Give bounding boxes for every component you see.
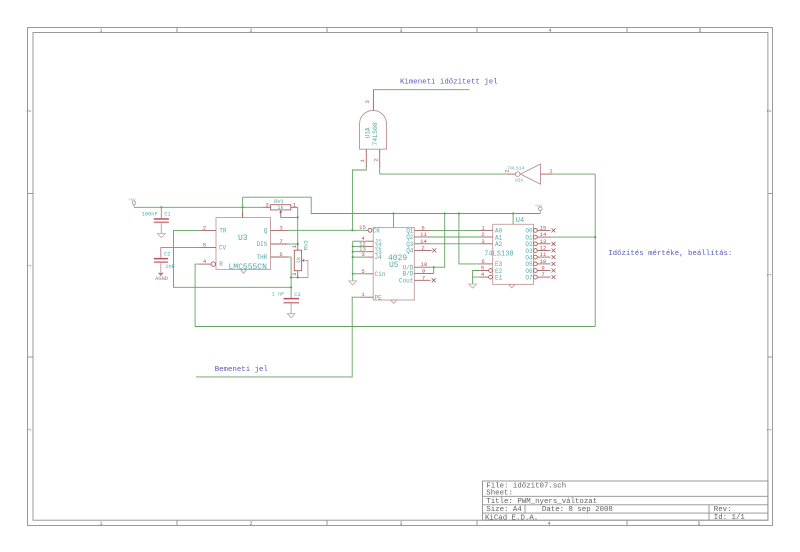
svg-text:C2: C2 [164, 251, 170, 257]
timer U3 LMC555CN body [216, 218, 271, 274]
wire CV to C2 [161, 246, 199, 248]
junction Q wire/AND pin1 [351, 229, 353, 231]
junction rail/UD vert [444, 212, 446, 214]
svg-text:1: 1 [99, 521, 102, 527]
counter U5 pins [360, 228, 434, 297]
junction J4 row [352, 256, 354, 258]
wire U4 pin16 drop [512, 214, 514, 225]
wire O1 to rail [551, 236, 596, 238]
svg-text:C1: C1 [164, 212, 170, 218]
counter U5 4029 body [373, 228, 414, 304]
wire J4 stub [353, 256, 367, 258]
counter U5 no-connect X on Q4 [432, 248, 436, 252]
capacitor C3 [284, 298, 300, 314]
svg-text:74LS14: 74LS14 [507, 166, 524, 172]
decoder U4 no-connect X marks [552, 228, 556, 279]
ground below U4 E1/E2 bracket [469, 284, 477, 288]
junction DIS/RV2 top [297, 243, 299, 245]
potentiometer RV2 wiper arrow [302, 259, 305, 262]
svg-text:1: 1 [99, 28, 102, 34]
svg-text:3: 3 [279, 224, 282, 231]
junction O1/right rail [594, 236, 596, 238]
potentiometer RV2 [294, 244, 301, 278]
svg-text:3: 3 [399, 521, 402, 527]
junction J2 row [352, 245, 354, 247]
decoder U4 input pins [480, 230, 493, 279]
potentiometer RV1 wiper arrow [279, 210, 282, 213]
wire VCC rail left [134, 206, 263, 208]
svg-text:CK: CK [373, 227, 381, 234]
svg-text:2: 2 [27, 109, 33, 112]
inverter U2A pins [507, 173, 553, 175]
svg-text:15: 15 [359, 224, 366, 231]
capacitor C2 [154, 247, 168, 272]
junction TR/THR/C3 node [290, 286, 292, 288]
ground below C3 [287, 314, 295, 318]
svg-text:Cout: Cout [399, 277, 413, 284]
wire RV2 wiper return [291, 261, 308, 278]
svg-text:+5V: +5V [535, 205, 543, 209]
svg-text:3: 3 [291, 273, 298, 276]
svg-text:Id: 1/1: Id: 1/1 [714, 514, 746, 522]
svg-text:U1A: U1A [365, 127, 372, 138]
wire THR drop to C3 node [290, 257, 292, 298]
junction U3 pin8/VCC [242, 206, 244, 208]
wire inverter output run [380, 173, 508, 175]
counter U5 pin names [373, 227, 414, 301]
wire U3 pin8 drop [242, 197, 244, 217]
wire U5 pin16 drop [393, 214, 395, 228]
wire VCC over-route to right ICs [243, 197, 541, 213]
wire Q3 to A2 [430, 243, 480, 245]
svg-text:5: 5 [698, 28, 701, 34]
svg-text:THR: THR [256, 254, 267, 261]
junction rail/U4 pin16 [512, 212, 514, 214]
junction wiper return/THR [290, 276, 292, 278]
svg-text:DIS: DIS [256, 241, 267, 248]
svg-text:Időzítés mértéke, beállítás:: Időzítés mértéke, beállítás: [608, 250, 732, 258]
wire J1 stub [353, 240, 367, 242]
svg-text:KiCad E.D.A.: KiCad E.D.A. [485, 514, 538, 522]
svg-text:U4: U4 [516, 217, 524, 225]
svg-text:3: 3 [399, 28, 402, 34]
title block [483, 481, 768, 520]
svg-text:1 nF: 1 nF [271, 292, 284, 298]
svg-text:3: 3 [265, 202, 268, 209]
svg-text:R: R [219, 261, 223, 268]
svg-text:7: 7 [422, 274, 425, 281]
svg-text:LMC555CN: LMC555CN [229, 263, 268, 272]
svg-text:100nF: 100nF [142, 212, 158, 218]
timer U3 pins [199, 212, 288, 266]
svg-text:Title: PWM_nyers_változat: Title: PWM_nyers_változat [486, 498, 597, 506]
svg-text:A2: A2 [495, 241, 503, 248]
wire bottom return [195, 326, 595, 328]
potentiometer RV1 [263, 205, 298, 218]
decoder U4 output pins with bubbles [534, 229, 551, 280]
svg-text:3: 3 [361, 251, 364, 258]
svg-text:7: 7 [541, 271, 544, 278]
junction J3 row [352, 251, 354, 253]
svg-text:1: 1 [27, 264, 33, 267]
timer U3 pin names [219, 227, 268, 268]
svg-text:Size: A4: Size: A4 [486, 506, 522, 514]
svg-text:1: 1 [766, 273, 772, 276]
svg-text:3: 3 [364, 100, 371, 103]
power AGND below C2 [158, 273, 164, 276]
junction UD/BD vert [433, 266, 435, 268]
svg-text:O7: O7 [525, 274, 533, 281]
svg-text:74LS08: 74LS08 [372, 122, 379, 146]
wire J3 stub [353, 251, 367, 253]
wire Bemeneti jel to PE [196, 297, 360, 377]
svg-text:2: 2 [372, 158, 379, 161]
svg-text:Q4: Q4 [406, 248, 414, 255]
svg-text:Kimeneti időzitett jel: Kimeneti időzitett jel [400, 78, 498, 86]
counter U5 pin numbers [359, 224, 428, 298]
counter U5 no-connect X on Cout [432, 278, 436, 282]
wire Q2 to A1 [430, 236, 480, 238]
wire up to 555 R pin [195, 264, 199, 326]
wire Cin stub [353, 273, 367, 275]
junction rail/E3 vert [458, 212, 460, 214]
junction C1/VCC [160, 206, 162, 208]
svg-text:Date: 8 sep 2008: Date: 8 sep 2008 [542, 506, 613, 514]
wire B/D tie to U/D [433, 267, 435, 273]
svg-text:Q: Q [264, 227, 268, 234]
wire E3 tie-high [459, 214, 480, 264]
ground below U5 J/Cin bracket [349, 281, 357, 285]
wire THR pin stub [288, 256, 291, 258]
svg-text:TR: TR [219, 227, 227, 234]
wire E2/E1 bracket to ground [473, 271, 480, 284]
svg-text:74LS138: 74LS138 [484, 251, 513, 259]
inverter U2A 74LS14 body [520, 164, 540, 184]
junction RV1 wiper/pin1 [297, 216, 299, 218]
wire RV1 wiper return [281, 216, 298, 218]
junction rail/U5 pin16 [392, 212, 394, 214]
svg-text:AGND: AGND [155, 276, 168, 282]
ground below C1 [157, 234, 165, 238]
svg-text:U3: U3 [238, 234, 248, 243]
svg-text:1: 1 [27, 428, 33, 431]
svg-text:5: 5 [697, 521, 700, 527]
power +5V at VCC rail left [132, 201, 136, 207]
wire CK node to AND input 1 [352, 166, 366, 230]
decoder U4 pin numbers [481, 224, 547, 278]
svg-text:E1: E1 [495, 274, 503, 281]
svg-text:Cin: Cin [375, 271, 386, 278]
svg-text:Rev:: Rev: [714, 506, 732, 514]
svg-text:U2A: U2A [515, 177, 524, 183]
junction Cin row [352, 273, 354, 275]
svg-text:Bemeneti jel: Bemeneti jel [215, 366, 269, 374]
svg-text:4: 4 [547, 521, 550, 527]
svg-text:+5V: +5V [129, 199, 137, 203]
wire J2 stub [353, 245, 367, 247]
svg-text:PE: PE [375, 294, 383, 301]
and-gate U1A 74LS08 body [360, 110, 387, 149]
svg-text:1nF: 1nF [165, 264, 175, 270]
svg-text:2: 2 [766, 109, 772, 112]
svg-text:CV: CV [219, 244, 227, 251]
svg-text:J4: J4 [375, 254, 383, 261]
wire RV1 pin1 chain to DIS/RV2 [297, 207, 299, 244]
svg-text:3: 3 [481, 238, 484, 245]
decoder U4 74LS138 body [493, 224, 534, 287]
svg-text:1: 1 [766, 428, 772, 431]
svg-text:4: 4 [548, 28, 551, 34]
wire Q out 555 to CK [288, 229, 368, 231]
and-gate U1A pins [366, 91, 379, 167]
junction RV2 bottom/wiper [297, 276, 299, 278]
svg-text:C3: C3 [294, 292, 300, 298]
wire DIS pin to RV2 chain [288, 243, 298, 245]
wire AND output to label [373, 90, 469, 92]
svg-text:2: 2 [203, 224, 206, 231]
svg-text:2: 2 [249, 28, 252, 34]
svg-text:1k: 1k [296, 257, 302, 263]
svg-text:2: 2 [421, 244, 424, 251]
timer U3 pin numbers [203, 224, 283, 265]
svg-text:5: 5 [203, 241, 206, 248]
decoder U4 pin names [495, 228, 533, 282]
svg-text:2: 2 [249, 521, 252, 527]
power +5V at right rail [539, 207, 543, 214]
wire Q1 to A0 [430, 229, 480, 231]
capacitor C1 [154, 207, 169, 233]
svg-text:7: 7 [279, 238, 282, 245]
wire inverter input to rail [553, 173, 596, 175]
wire J inputs bracket [352, 241, 354, 281]
svg-text:1k: 1k [277, 205, 283, 211]
wire right rail down [594, 174, 596, 326]
svg-text:RV2: RV2 [303, 240, 310, 250]
svg-text:U5: U5 [389, 261, 399, 270]
svg-text:5: 5 [361, 268, 364, 275]
svg-text:6: 6 [279, 251, 282, 258]
wire AND pin2 to inverter output [379, 166, 381, 174]
wire U/D tie-high [430, 214, 445, 268]
svg-text:Sheet:: Sheet: [486, 490, 513, 498]
svg-text:RV1: RV1 [274, 198, 285, 205]
wire TR net [174, 230, 292, 287]
